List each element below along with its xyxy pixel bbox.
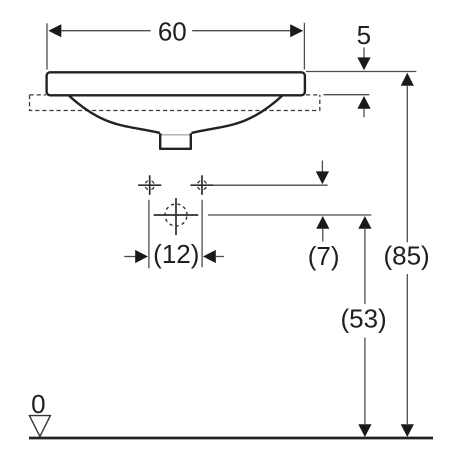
dim 85 top arrow (up) [401, 73, 414, 86]
dim 85 lower line segment [406, 274, 408, 424]
dim 5 upper arrow (down) [357, 57, 370, 70]
svg-text:60: 60 [158, 16, 187, 46]
tap hole crosshair [154, 198, 199, 235]
top reference line (rim top level) [306, 71, 416, 73]
svg-text:(12): (12) [153, 239, 199, 269]
dim 7 lower arrow (up) [316, 216, 329, 229]
dim 5 upper arrow tail [363, 47, 365, 58]
dim 12 right arrow tail [216, 256, 224, 258]
dim 12 left extension line [148, 200, 150, 268]
svg-text:0: 0 [31, 389, 45, 419]
basin rim [47, 72, 305, 95]
dim 12 left arrow (right-pointing) [135, 250, 148, 263]
right fixing hole dashed circle [197, 181, 206, 190]
dim 7 lower arrow tail [322, 229, 324, 242]
basin bowl left arc [68, 95, 160, 133]
dim 85 upper line segment [406, 86, 408, 243]
dim 60 line right segment [192, 30, 291, 32]
fixing hole level reference line [214, 184, 328, 186]
dim 7 upper arrow tail [321, 161, 323, 172]
dim 5 lower arrow tail [363, 109, 365, 118]
dim 53 lower line segment [364, 338, 366, 425]
dim 12 right extension line [201, 200, 203, 267]
svg-text:(53): (53) [340, 304, 386, 334]
basin bowl right arc [192, 95, 284, 133]
dim 53 upper line segment [364, 229, 366, 304]
dim 60 right extension line [303, 23, 305, 70]
dim 12 left arrow tail [124, 256, 136, 258]
floor line [29, 437, 433, 440]
dim 7 upper arrow (down) [316, 171, 329, 184]
svg-text:(7): (7) [308, 241, 340, 271]
countertop reference line (counter top level) [324, 94, 370, 96]
countertop dashed outline [30, 95, 320, 111]
dim 60 right arrow [290, 24, 303, 37]
tap hole level reference line [208, 214, 372, 216]
dim 60 left extension line [46, 23, 48, 69]
datum triangle [29, 416, 50, 437]
dim 60 line left segment [61, 30, 151, 32]
svg-text:5: 5 [357, 20, 371, 50]
left fixing hole dashed circle [145, 181, 154, 190]
dim 60 left arrow [48, 24, 61, 37]
left fixing hole crosshair [138, 175, 161, 195]
dim 85 bottom arrow (down) [401, 424, 414, 437]
right fixing hole crosshair [190, 175, 213, 195]
svg-text:(85): (85) [383, 241, 429, 271]
dim 12 right arrow (left-pointing) [203, 250, 216, 263]
dim 53 upper arrow (up) [358, 216, 371, 229]
drain top thin line [160, 134, 191, 136]
dim 53 bottom arrow (down) [358, 424, 371, 437]
dim 5 lower arrow (up) [357, 96, 370, 109]
tap hole dashed circle [165, 204, 187, 226]
drain outlet [159, 133, 192, 149]
